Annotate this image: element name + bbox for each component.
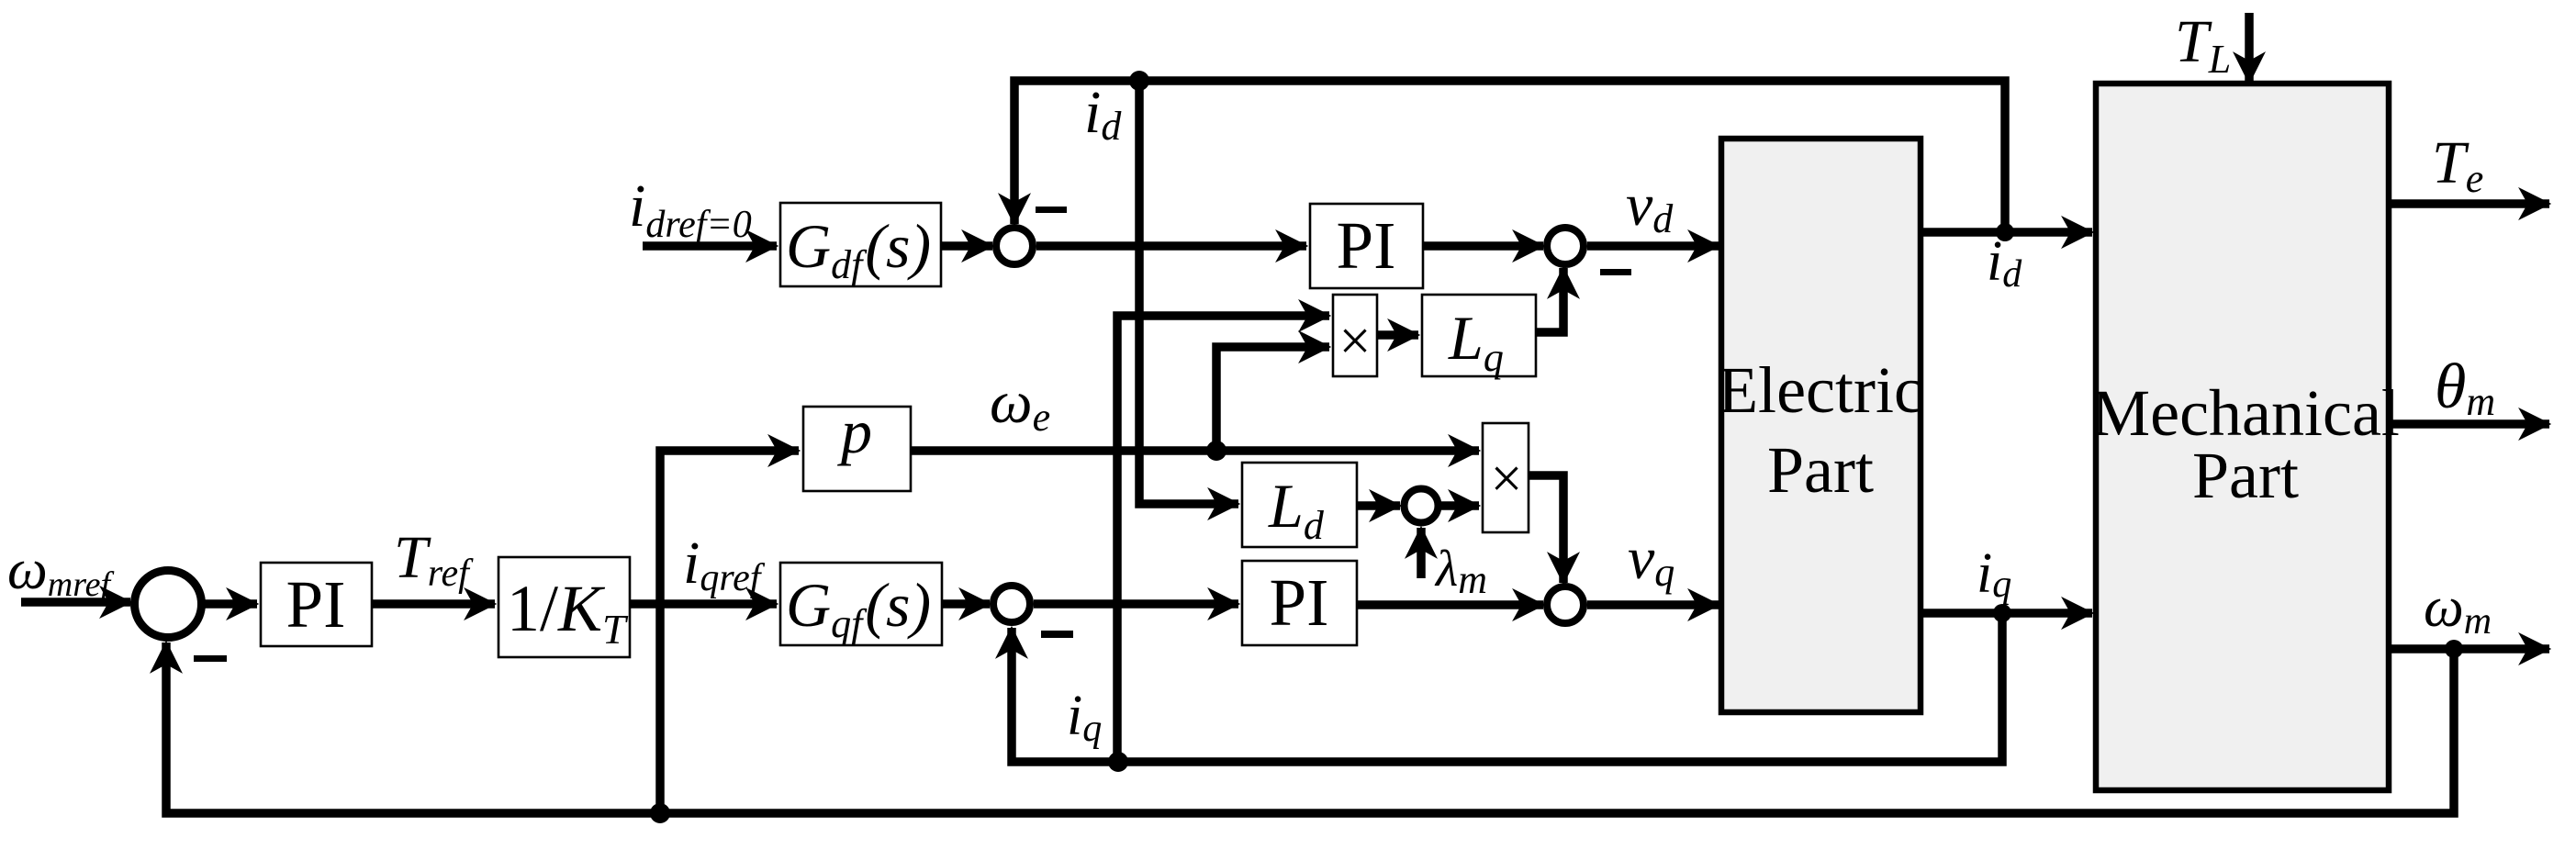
wire G_df to sum S1 xyxy=(941,241,992,251)
svg-text:TL: TL xyxy=(2175,8,2231,82)
wire L_d to sum S5 xyxy=(1357,501,1400,510)
svg-text:Te: Te xyxy=(2432,129,2483,201)
block 1/K_T xyxy=(498,557,630,657)
wire theta_m output xyxy=(2389,419,2549,429)
wire v_q to Electric Part xyxy=(1587,600,1719,609)
junction dot i_d output xyxy=(1996,223,2014,241)
minus sign at S1 xyxy=(1036,207,1067,213)
svg-text:Part: Part xyxy=(1767,433,1874,507)
svg-text:iq: iq xyxy=(1067,685,1102,750)
block L_d xyxy=(1242,463,1357,547)
summing junction S3 (v_q) xyxy=(1547,586,1584,623)
minus sign at S4 xyxy=(1041,631,1073,638)
svg-text:vd: vd xyxy=(1626,172,1674,241)
wire sum S4 to PI q xyxy=(1034,599,1238,609)
svg-text:iq: iq xyxy=(1977,542,2011,606)
multiplier X2 xyxy=(1483,423,1529,532)
svg-text:λm: λm xyxy=(1434,541,1487,602)
wire sum S0 to PI w xyxy=(202,599,257,609)
block Electric Part xyxy=(1721,139,1921,712)
svg-text:Tref: Tref xyxy=(394,524,474,595)
block Mechanical Part xyxy=(2096,84,2389,790)
label Mechanical Part xyxy=(2091,376,2400,512)
wire X1 to L_q xyxy=(1377,330,1418,340)
svg-text:ωe: ωe xyxy=(990,369,1050,440)
wire lambda_m up into sum S5 xyxy=(1417,528,1426,578)
svg-text:×: × xyxy=(1491,448,1523,510)
wire 1/K_T to G_qf xyxy=(630,599,777,609)
wire omega_e from p to multiplier X2 xyxy=(911,446,1479,455)
wire PI w to 1/K_T xyxy=(372,599,495,609)
wire G_qf to sum S4 xyxy=(942,599,990,609)
wire i_dref input xyxy=(643,241,777,251)
junction dot top line xyxy=(1129,71,1149,91)
wire omega_e branch to multiplier X1 xyxy=(1216,347,1329,451)
wire PI q to sum S3 xyxy=(1357,600,1543,609)
wire v_d to Electric Part xyxy=(1587,241,1719,251)
summing junction S4 (q-axis error) xyxy=(993,586,1030,622)
wire PI d to sum S2 xyxy=(1423,241,1543,251)
wire omega_m riser to p xyxy=(660,451,799,813)
multiplier X1 xyxy=(1333,295,1377,376)
junction dot omega_m bottom line xyxy=(650,803,670,823)
wire i_q output to Mechanical Part xyxy=(1921,609,2092,618)
junction dot omega_m output xyxy=(2445,640,2463,658)
block G_df(s) xyxy=(780,203,941,286)
svg-text:PI: PI xyxy=(1270,565,1329,640)
svg-text:vq: vq xyxy=(1628,525,1674,595)
block PI d-axis xyxy=(1310,204,1423,288)
svg-text:ωmref: ωmref xyxy=(7,539,114,604)
summing junction S1 (d-axis error) xyxy=(996,228,1033,264)
wire i_q feedback xyxy=(1012,613,2002,762)
wire X2 to sum S3 xyxy=(1529,475,1563,583)
wire omega_mref input xyxy=(21,598,130,607)
wire sum S1 to PI d xyxy=(1036,241,1306,251)
svg-text:PI: PI xyxy=(286,567,346,642)
svg-text:id: id xyxy=(1084,79,1122,149)
wire i_d drop to L_d xyxy=(1139,81,1238,504)
svg-text:Part: Part xyxy=(2192,439,2299,512)
summing junction S2 (v_d) xyxy=(1547,228,1584,264)
wire omega_m feedback xyxy=(166,642,2454,813)
junction dot omega_e line xyxy=(1206,441,1226,461)
wire omega_m output xyxy=(2389,644,2549,654)
minus sign at S0 xyxy=(194,655,227,662)
summing junction S0 (speed error) xyxy=(135,571,202,638)
svg-text:PI: PI xyxy=(1337,208,1396,283)
wire i_q riser to multiplier X1 xyxy=(1117,316,1329,762)
svg-text:p: p xyxy=(837,397,872,466)
svg-text:×: × xyxy=(1339,310,1372,373)
wire sum S5 to multiplier X2 xyxy=(1440,501,1479,510)
wire i_d top feedback xyxy=(1014,81,2005,232)
svg-text:ωm: ωm xyxy=(2424,576,2492,642)
minus sign at S2 xyxy=(1600,269,1631,275)
block G_qf(s) xyxy=(780,563,942,645)
block L_q xyxy=(1422,295,1536,376)
svg-text:iqref: iqref xyxy=(683,530,766,599)
summing junction S5 (L_d plus lambda_m) xyxy=(1405,489,1439,523)
svg-text:idref=0: idref=0 xyxy=(629,173,752,246)
svg-text:θm: θm xyxy=(2435,352,2495,424)
wire i_d output to Mechanical Part xyxy=(1921,228,2092,237)
junction dot i_q bottom line xyxy=(1108,752,1128,772)
svg-text:Electric: Electric xyxy=(1718,353,1923,427)
block PI q-axis xyxy=(1242,561,1357,645)
junction dot i_q output xyxy=(1993,604,2011,622)
wire T_e output xyxy=(2389,199,2549,208)
wire T_L input xyxy=(2245,13,2254,83)
block p xyxy=(803,407,911,491)
wire L_q to sum S2 xyxy=(1536,268,1563,332)
label Electric Part xyxy=(1718,353,1923,507)
block PI speed xyxy=(261,563,372,646)
